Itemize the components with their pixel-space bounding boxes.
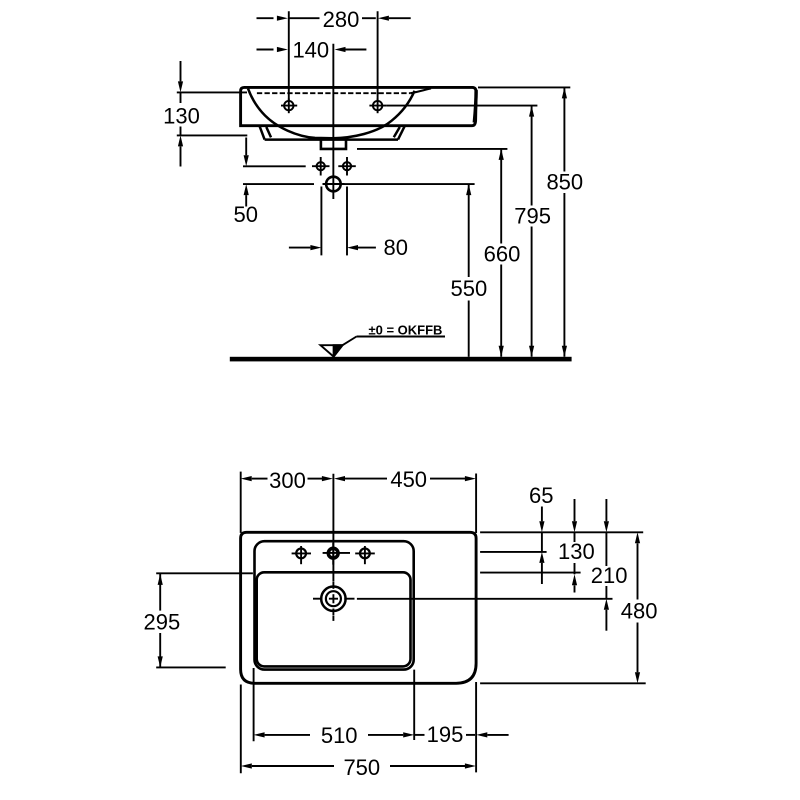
extension plan rim top left: [156, 572, 253, 574]
sink body outline: [241, 87, 477, 125]
dimension 795: [529, 106, 534, 357]
plan deck outline: [255, 541, 414, 669]
extension line mounting hole right down: [346, 187, 348, 256]
extension 510 left: [253, 668, 255, 741]
extension line drain center left: [243, 183, 314, 185]
dimension 80: [289, 245, 376, 250]
extension line top (130): [177, 91, 247, 93]
dimension 660: [499, 149, 504, 357]
dimension 295: [158, 574, 163, 668]
extension plan rim bottom left: [156, 666, 226, 668]
drain hole (elevation): [323, 177, 345, 192]
svg-text:295: 295: [144, 609, 181, 634]
extension line drain box bottom right: [357, 148, 507, 150]
bowl left curve: [248, 89, 333, 139]
dimension 210: [604, 499, 609, 631]
svg-text:±0 = OKFFB: ±0 = OKFFB: [369, 322, 443, 337]
plan centerline: [332, 474, 334, 581]
svg-text:130: 130: [558, 539, 595, 564]
datum symbol: [321, 337, 446, 357]
svg-text:130: 130: [163, 103, 200, 128]
extension line mounting holes: [243, 165, 306, 167]
svg-text:795: 795: [514, 204, 551, 229]
extension line drain center right: [342, 183, 475, 185]
dimension 510: [254, 732, 415, 737]
svg-text:450: 450: [390, 467, 427, 492]
dashed back rim line: [257, 92, 411, 94]
skirt: [260, 127, 405, 140]
drain box: [321, 140, 346, 149]
svg-text:550: 550: [451, 276, 488, 301]
dimension 195: [414, 732, 508, 737]
dimension 850: [562, 87, 567, 356]
extension line faucet hole level right: [387, 105, 538, 107]
extension plan top edge right: [480, 531, 643, 533]
svg-text:210: 210: [591, 563, 628, 588]
dimension 750: [241, 763, 476, 768]
extension 750 left: [240, 685, 242, 774]
extension plan rim top right: [480, 572, 580, 574]
centerline (elevation): [332, 44, 334, 199]
faucet hole left (elevation): [281, 99, 297, 114]
back rim rise to deck: [411, 88, 431, 93]
plan outer outline: [241, 532, 477, 683]
dimension 280: [257, 16, 411, 21]
svg-text:195: 195: [427, 722, 464, 747]
svg-text:510: 510: [321, 723, 358, 748]
svg-text:50: 50: [234, 202, 258, 227]
extension line bottom (130): [177, 134, 248, 136]
extension line mounting hole left down: [320, 187, 322, 256]
mounting hole left: [312, 157, 330, 176]
dimension 130 (plan): [572, 499, 577, 593]
extension line sink top right: [478, 86, 570, 88]
dimension 140: [257, 47, 367, 52]
plan faucet hole middle: [323, 543, 350, 565]
dimension 130 (elevation): [178, 61, 183, 167]
svg-text:850: 850: [546, 170, 583, 195]
plan basin rim: [257, 572, 411, 666]
plan drain: [313, 581, 355, 615]
dimension 300 / 450: [241, 476, 476, 481]
dimension 550: [466, 184, 471, 357]
extension plan holes line right: [480, 551, 546, 553]
extension plan drain line right: [357, 598, 613, 600]
svg-text:480: 480: [621, 599, 658, 624]
svg-text:660: 660: [484, 241, 521, 266]
bowl right curve: [333, 91, 415, 138]
floor line: [230, 357, 572, 362]
faucet hole right (elevation): [369, 99, 386, 114]
extension 510 right: [413, 670, 415, 740]
svg-text:300: 300: [269, 468, 306, 493]
dimension 50: [244, 138, 249, 207]
dimension 65: [539, 507, 544, 585]
svg-text:280: 280: [323, 7, 360, 32]
extension line right faucet hole: [377, 11, 379, 100]
plan faucet hole left: [292, 546, 311, 564]
plan faucet hole right: [355, 546, 375, 564]
svg-text:80: 80: [383, 235, 407, 260]
extension plan right long: [475, 474, 477, 534]
mounting hole right: [338, 157, 356, 176]
extension plan outer left top: [240, 472, 242, 533]
dimension 480: [635, 532, 640, 683]
svg-text:65: 65: [529, 483, 553, 508]
extension line left faucet hole: [288, 11, 290, 100]
svg-text:750: 750: [343, 755, 380, 780]
extension plan bottom edge right: [480, 682, 646, 684]
svg-text:140: 140: [292, 37, 329, 62]
